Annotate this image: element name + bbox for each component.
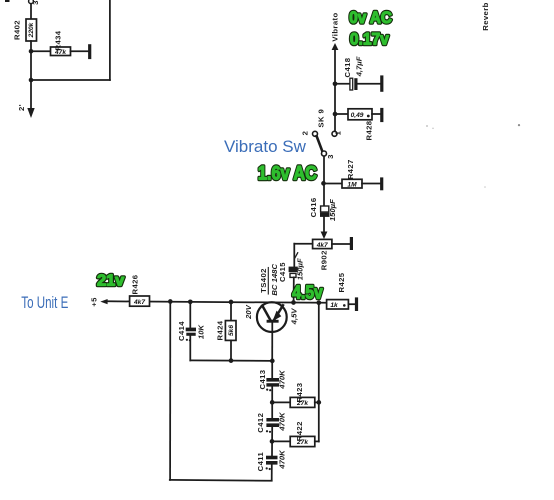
svg-text:27k: 27k xyxy=(296,400,308,407)
svg-text:R902: R902 xyxy=(320,250,329,270)
svg-text:C416: C416 xyxy=(309,197,318,217)
svg-text:2': 2' xyxy=(17,104,26,111)
svg-text:150µF: 150µF xyxy=(328,199,337,221)
svg-text:4k7: 4k7 xyxy=(133,299,145,306)
svg-text:R425: R425 xyxy=(337,272,346,292)
svg-text:R434: R434 xyxy=(54,30,63,50)
svg-text:Vibrato: Vibrato xyxy=(331,12,340,41)
svg-text:5k6: 5k6 xyxy=(228,325,235,336)
svg-text:+5: +5 xyxy=(89,297,98,307)
svg-text:R424: R424 xyxy=(216,320,225,340)
svg-text:BC 148C: BC 148C xyxy=(270,264,279,296)
svg-text:2: 2 xyxy=(301,131,310,136)
svg-text:R428: R428 xyxy=(365,120,374,140)
svg-text:To Unit E: To Unit E xyxy=(21,293,68,312)
svg-text:1: 1 xyxy=(334,130,343,135)
svg-text:3: 3 xyxy=(31,0,40,5)
svg-text:1k: 1k xyxy=(330,302,338,309)
svg-text:20V: 20V xyxy=(244,304,253,320)
svg-text:Vibrato Sw: Vibrato Sw xyxy=(224,137,307,156)
svg-text:150µF: 150µF xyxy=(296,258,305,280)
svg-text:TS402: TS402 xyxy=(259,268,268,293)
svg-text:27k: 27k xyxy=(296,439,308,446)
svg-text:4,5V: 4,5V xyxy=(290,308,299,326)
svg-text:1.6v AC: 1.6v AC xyxy=(258,162,317,184)
svg-text:470K: 470K xyxy=(278,411,287,432)
svg-text:4.5v: 4.5v xyxy=(292,282,323,303)
svg-text:C414: C414 xyxy=(177,321,186,341)
svg-text:3: 3 xyxy=(326,154,335,159)
svg-text:10K: 10K xyxy=(197,324,206,340)
svg-text:C418: C418 xyxy=(343,57,352,77)
svg-text:470K: 470K xyxy=(277,369,286,390)
svg-text:1M: 1M xyxy=(347,181,357,188)
svg-text:C412: C412 xyxy=(256,413,265,433)
svg-text:R427: R427 xyxy=(346,159,355,179)
svg-text:R402: R402 xyxy=(13,20,22,40)
svg-text:C411: C411 xyxy=(256,452,265,472)
svg-text:47k: 47k xyxy=(54,49,66,56)
svg-text:0,49: 0,49 xyxy=(351,112,364,119)
svg-text:C413: C413 xyxy=(258,370,267,390)
svg-text:21v: 21v xyxy=(97,273,124,290)
svg-text:4,7µF: 4,7µF xyxy=(355,56,364,77)
svg-text:R422: R422 xyxy=(295,421,304,441)
svg-text:C415: C415 xyxy=(278,262,287,282)
svg-text:SK 9: SK 9 xyxy=(316,109,325,128)
svg-text:R426: R426 xyxy=(131,275,140,295)
svg-text:220k: 220k xyxy=(28,22,35,38)
svg-text:470K: 470K xyxy=(278,449,287,470)
svg-text:4k7: 4k7 xyxy=(316,242,328,249)
svg-text:0v AC: 0v AC xyxy=(349,8,392,27)
svg-text:0.17v: 0.17v xyxy=(350,29,389,48)
svg-text:Reverb: Reverb xyxy=(481,2,490,30)
